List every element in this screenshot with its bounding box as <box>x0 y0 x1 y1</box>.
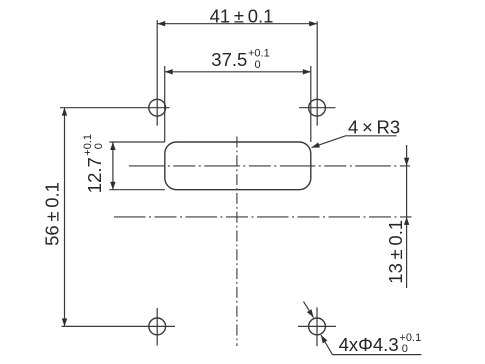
arrowhead dim 12.7 top <box>110 142 115 150</box>
arrowhead dim 37.5 left <box>165 69 173 74</box>
arrowhead leader 4xPhi4.3 upper <box>307 309 316 319</box>
centerline vertical crosshair hole top-left / extension line dim 41 left <box>156 20 158 126</box>
svg-text:13 ± 0.1: 13 ± 0.1 <box>385 220 406 284</box>
svg-text:56 ± 0.1: 56 ± 0.1 <box>42 182 63 246</box>
leader line 4xPhi4.3 upper segment <box>304 302 314 318</box>
extension line dim 37.5 left <box>164 66 166 142</box>
centerline horizontal crosshair hole top-left / extension line dim 56 top <box>60 107 170 109</box>
label dim 56±0.1 (rotated) <box>42 182 63 246</box>
dimension line 56±0.1 <box>64 108 66 327</box>
arrowhead leader 4xR3 <box>311 142 320 150</box>
dimension line 12.7 <box>112 142 114 190</box>
centerline horizontal crosshair hole bottom-left / extension line dim 56 bottom <box>62 325 176 327</box>
hole top-left <box>149 99 166 116</box>
extension line dim 37.5 right <box>310 66 312 142</box>
leader line 4xR3 to slot corner <box>312 136 346 148</box>
svg-text:0: 0 <box>402 343 408 355</box>
centerline part horizontal (dash-dot) <box>114 216 412 218</box>
svg-text:+0.1: +0.1 <box>82 134 94 156</box>
svg-text:12.7: 12.7 <box>84 157 105 193</box>
svg-text:+0.1: +0.1 <box>248 48 270 60</box>
hole top-right <box>309 99 326 116</box>
centerline vertical crosshair hole bottom-left <box>156 308 158 346</box>
arrowhead dim 12.7 bottom <box>110 182 115 190</box>
centerline part vertical (dash-dot) <box>236 137 238 347</box>
arrowhead dim 13 upper (points down at slot axis) <box>404 158 409 166</box>
centerline horizontal crosshair hole top-right <box>299 107 336 109</box>
arrowhead leader 4xPhi4.3 lower <box>319 334 328 344</box>
svg-text:4xΦ4.3: 4xΦ4.3 <box>339 334 399 355</box>
leader underline 4xR3 <box>346 135 397 137</box>
arrowhead dim 41 left <box>157 21 165 26</box>
hole bottom-left <box>149 318 166 335</box>
arrowhead dim 56 bottom <box>62 318 67 326</box>
extension line dim 12.7 top <box>109 141 165 143</box>
leader underline 4xPhi4.3 <box>332 354 421 356</box>
centerline horizontal crosshair hole bottom-right <box>298 325 336 327</box>
arrowhead dim 37.5 right <box>303 69 311 74</box>
dimension line 41±0.1 <box>157 23 317 25</box>
extension line dim 12.7 bottom <box>109 189 165 191</box>
arrowhead dim 13 lower (points up at part axis) <box>404 217 409 225</box>
svg-text:41 ± 0.1: 41 ± 0.1 <box>210 5 274 26</box>
centerline vertical crosshair hole top-right / extension line dim 41 right <box>316 21 318 125</box>
label dim 12.7 (rotated) <box>82 134 105 193</box>
centerline vertical crosshair hole bottom-right <box>316 307 318 346</box>
dimension line 37.5 <box>165 71 311 73</box>
svg-text:0: 0 <box>255 59 261 71</box>
dimension line 13±0.1 <box>406 145 408 288</box>
slot (rounded rectangle cutout) <box>165 142 311 190</box>
arrowhead dim 56 top <box>62 108 67 116</box>
svg-text:37.5: 37.5 <box>211 49 247 70</box>
leader line 4xPhi4.3 lower segment <box>321 335 332 355</box>
svg-text:4 × R3: 4 × R3 <box>348 116 400 137</box>
label dim 13±0.1 (rotated) <box>385 220 406 284</box>
svg-text:0: 0 <box>93 143 105 149</box>
hole bottom-right <box>309 318 326 335</box>
centerline slot horizontal (dash-dot) <box>129 165 410 167</box>
arrowhead dim 41 right <box>309 21 317 26</box>
